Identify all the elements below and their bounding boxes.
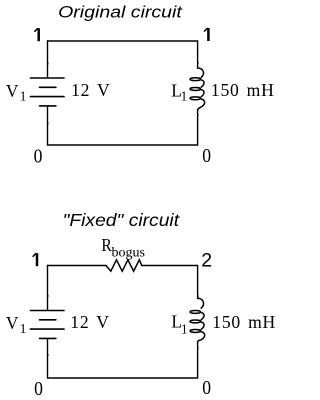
wire: bottom circuit, left side lower (battery to node 0) <box>47 338 49 378</box>
inductor L1 (bottom circuit) <box>190 298 205 342</box>
wire: bottom circuit, bottom side <box>48 377 198 379</box>
wire: top circuit, right side upper (node 1 to inductor) <box>197 41 199 68</box>
svg-text:12 V: 12 V <box>70 312 109 332</box>
svg-text:V: V <box>6 81 19 101</box>
pin dot: battery V1 top pin <box>47 62 49 64</box>
svg-text:0: 0 <box>202 377 211 399</box>
pin dot: battery V1 bottom pin <box>47 122 49 124</box>
svg-text:0: 0 <box>34 378 43 400</box>
wire: top circuit, right side lower (inductor to node 0) <box>197 110 199 145</box>
node label 1 (top circuit, top-left) <box>35 28 39 41</box>
svg-text:"Fixed" circuit: "Fixed" circuit <box>63 210 180 230</box>
wire: top circuit, bottom side <box>48 144 198 146</box>
wire: bottom circuit, left side upper (node 1 to battery) <box>47 266 49 310</box>
svg-text:150 mH: 150 mH <box>211 80 275 100</box>
svg-text:1: 1 <box>20 321 27 336</box>
pin dot: inductor L1 top pin <box>197 62 199 64</box>
svg-text:V: V <box>6 313 19 333</box>
svg-text:1: 1 <box>181 321 188 336</box>
inductor L1 (top circuit) <box>190 68 205 110</box>
svg-text:12 V: 12 V <box>71 80 110 100</box>
svg-text:bogus: bogus <box>112 245 145 260</box>
svg-text:0: 0 <box>34 145 43 167</box>
battery V1 (top circuit) <box>30 78 64 106</box>
node label 1 (top circuit, top-right) <box>205 28 209 41</box>
wire: bottom circuit, right side lower (inductor to node 0) <box>197 342 199 378</box>
svg-text:150 mH: 150 mH <box>212 312 276 332</box>
svg-text:2: 2 <box>201 250 212 272</box>
svg-text:Original circuit: Original circuit <box>58 2 183 21</box>
battery V1 (bottom circuit) <box>30 311 64 339</box>
pin dot: battery V1 bottom pin (bottom circuit) <box>47 354 49 356</box>
pin dot: inductor L1 top pin (bottom circuit) <box>197 295 199 297</box>
node label 1 (bottom circuit, top-left) <box>33 253 37 266</box>
wire: top circuit, top side <box>48 40 198 42</box>
svg-text:0: 0 <box>202 145 211 167</box>
wire: bottom circuit, right side upper (node 2 to inductor) <box>197 266 199 299</box>
wire: bottom circuit, top-left lead to resistor <box>48 265 107 267</box>
pin dot: inductor L1 bottom pin (bottom circuit) <box>197 348 199 350</box>
svg-text:1: 1 <box>181 89 188 104</box>
pin dot: battery V1 top pin (bottom circuit) <box>47 295 49 297</box>
svg-text:1: 1 <box>20 89 27 104</box>
wire: top circuit, left side lower (battery to node 0) <box>47 106 49 145</box>
resistor R bogus zigzag <box>106 260 142 271</box>
wire: top circuit, left side upper (node 1 to battery) <box>47 41 49 77</box>
pin dot: inductor L1 bottom pin <box>197 114 199 116</box>
wire: bottom circuit, resistor to top-right corner <box>142 265 198 267</box>
